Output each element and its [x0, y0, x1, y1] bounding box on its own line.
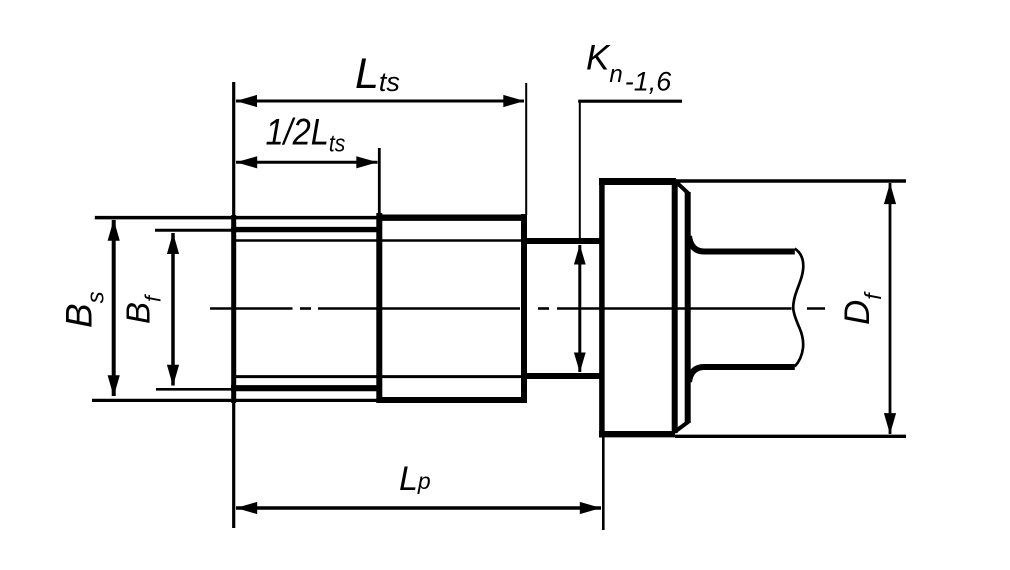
wire: second cylinder bottom edge — [377, 397, 528, 403]
arrow half-Lts right — [356, 156, 377, 168]
extension Df bottom — [675, 435, 906, 438]
arrow Lp left — [236, 502, 257, 514]
wire: thread outline top (Bf extension) — [155, 229, 233, 232]
leader Kn horizontal — [578, 100, 682, 103]
arrow Kn down — [574, 353, 586, 373]
dimension Df line — [889, 183, 892, 434]
wire: flange bottom chamfer diagonal — [675, 421, 691, 433]
arrow Bf up — [167, 233, 179, 254]
dimension Bf line — [171, 233, 175, 386]
dimension Bs line — [112, 220, 116, 396]
wire: thread root thin line top — [236, 239, 521, 241]
leader Kn vertical thin — [579, 101, 581, 239]
arrow Bf down — [167, 365, 179, 386]
wire: flange chamfer outer edge — [685, 192, 691, 423]
wire: thread crest bottom line (Bs extension) — [92, 399, 378, 402]
wire: neck top edge — [521, 238, 602, 244]
arrow Df down — [884, 413, 896, 434]
wire: second cylinder right edge — [521, 214, 527, 403]
wire: flange top chamfer diagonal — [675, 181, 690, 195]
arrow Bs down — [108, 375, 120, 396]
centerline axis — [210, 307, 825, 310]
arrow Bs up — [108, 220, 120, 241]
dimension Lp line — [236, 506, 601, 509]
extension Df top — [676, 179, 906, 183]
wire: flange bottom edge — [599, 431, 675, 437]
wire: second cylinder top edge — [377, 214, 528, 220]
arrow Lts left — [236, 95, 257, 107]
arrow Kn up — [574, 245, 586, 265]
arrow half-Lts left — [236, 156, 257, 168]
arrow Lts right — [503, 95, 524, 107]
wire: thread root thin line bottom — [236, 375, 521, 378]
arrow Df up — [884, 183, 896, 204]
wire: thread crest top line (Bs extension) — [95, 216, 378, 220]
wire: right shaft bottom edge with fillet — [689, 367, 795, 382]
wire: Lp right extension below flange — [602, 438, 605, 531]
arrow Lp right — [580, 502, 601, 514]
wire: neck bottom edge — [521, 373, 602, 379]
wire: flange top edge — [599, 178, 676, 185]
dimension Lts line — [236, 100, 524, 103]
wire: right shaft top edge with fillet — [689, 236, 795, 252]
wire: break wavy line — [793, 249, 803, 367]
wire: flange left edge — [599, 178, 605, 438]
wire: mid junction vertical — [378, 148, 381, 213]
wire: thread outline bottom (Bf extension) — [156, 388, 231, 391]
wire: threaded body left edge + extension line — [232, 82, 235, 528]
wire: flange face inner edge — [672, 183, 678, 433]
dimension Kn line — [578, 245, 581, 372]
arrowheads — [108, 95, 897, 514]
dimension 1/2Lts line — [236, 161, 378, 164]
